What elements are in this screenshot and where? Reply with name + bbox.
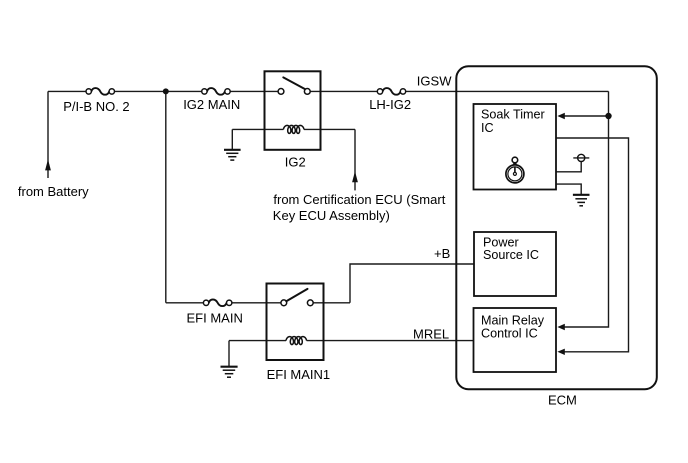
svg-text:IGSW: IGSW bbox=[417, 73, 452, 88]
svg-text:Key ECU Assembly): Key ECU Assembly) bbox=[273, 208, 390, 223]
svg-text:IG2: IG2 bbox=[285, 155, 306, 170]
svg-text:IC: IC bbox=[481, 121, 494, 135]
svg-text:Control IC: Control IC bbox=[481, 327, 538, 341]
svg-text:from Certification ECU (Smart: from Certification ECU (Smart bbox=[273, 192, 445, 207]
svg-text:+B: +B bbox=[434, 246, 450, 261]
svg-text:P/I-B NO. 2: P/I-B NO. 2 bbox=[63, 99, 129, 114]
svg-text:Source IC: Source IC bbox=[483, 248, 539, 262]
svg-text:Soak Timer: Soak Timer bbox=[481, 108, 545, 122]
svg-text:MREL: MREL bbox=[413, 327, 449, 342]
svg-text:from Battery: from Battery bbox=[18, 184, 89, 199]
svg-text:IG2 MAIN: IG2 MAIN bbox=[183, 97, 240, 112]
svg-text:Main Relay: Main Relay bbox=[481, 314, 545, 328]
svg-text:EFI MAIN: EFI MAIN bbox=[187, 310, 243, 325]
svg-text:ECM: ECM bbox=[548, 393, 577, 408]
svg-text:LH-IG2: LH-IG2 bbox=[369, 97, 411, 112]
svg-text:EFI MAIN1: EFI MAIN1 bbox=[267, 367, 331, 382]
